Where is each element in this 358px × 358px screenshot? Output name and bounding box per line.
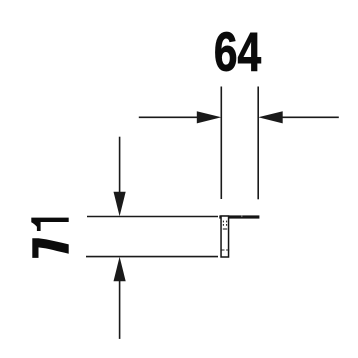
svg-text:64: 64 (214, 22, 261, 82)
